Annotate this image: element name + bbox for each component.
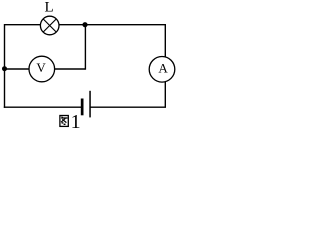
ammeter A bbox=[149, 57, 175, 83]
wire top (left loop top, through lamp) bbox=[5, 24, 166, 26]
lamp L (circle with X) bbox=[40, 16, 59, 35]
voltmeter V bbox=[29, 56, 55, 82]
battery negative plate (short thick) bbox=[81, 99, 84, 116]
svg-text:1: 1 bbox=[71, 111, 81, 129]
battery positive plate (long thin) bbox=[89, 91, 91, 118]
wire voltmeter branch horizontal bbox=[5, 68, 86, 70]
glyph 图 drawn manually bbox=[60, 116, 68, 127]
svg-text:L: L bbox=[45, 0, 54, 16]
wire bottom right (from battery) bbox=[90, 106, 166, 108]
wire voltmeter branch vertical up to node bbox=[84, 25, 86, 70]
wire left vertical bbox=[4, 24, 6, 108]
wire bottom left (to battery) bbox=[4, 106, 81, 108]
node junction dot on left wire bbox=[2, 66, 7, 71]
svg-text:A: A bbox=[158, 61, 168, 76]
label 图1 (figure 1) bbox=[60, 111, 81, 133]
wire right vertical bbox=[164, 24, 166, 107]
node junction dot on top wire bbox=[82, 22, 87, 27]
svg-text:V: V bbox=[36, 60, 46, 75]
